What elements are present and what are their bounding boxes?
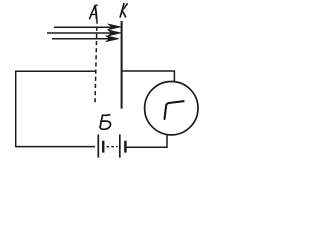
- light ray 3 arrowhead: [106, 36, 119, 42]
- label G (galvanometer): [165, 101, 184, 119]
- battery B long plate 1: [97, 135, 99, 158]
- wire: galvanometer bottom to battery right terminal: [127, 135, 168, 147]
- light ray 2: [47, 32, 114, 34]
- label K (cathode): [120, 4, 127, 17]
- electrode A (anode grid, dashed line): [95, 20, 97, 105]
- light ray 2 arrowhead: [107, 30, 121, 36]
- light ray 1: [54, 26, 114, 28]
- light ray 1 arrowhead: [108, 24, 121, 30]
- label B (battery): [100, 115, 111, 130]
- wire: top-left horizontal from left loop to electrode A: [16, 70, 96, 72]
- light ray 3: [52, 38, 112, 40]
- wire: left vertical side of loop: [15, 71, 17, 147]
- battery B dashed middle (omitted cells): [107, 146, 118, 148]
- galvanometer G circle: [145, 82, 198, 135]
- label A (anode): [90, 5, 98, 19]
- wire: bottom-left horizontal to battery: [15, 146, 95, 148]
- battery B short plate 2: [124, 141, 127, 153]
- battery B short plate 1: [102, 141, 105, 153]
- battery B long plate 2: [119, 135, 121, 158]
- wire: cathode K to galvanometer top: [122, 71, 175, 82]
- cathode K plate: [121, 21, 123, 109]
